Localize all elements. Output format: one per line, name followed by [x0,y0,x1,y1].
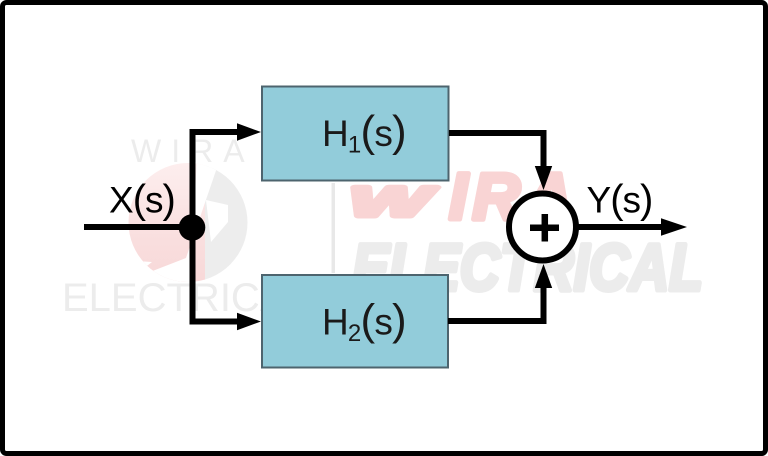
wire: top branch horizontal into H1 [190,129,239,135]
arrowhead into summer top [535,166,552,190]
svg-text:W: W [349,179,437,226]
node: junction dot [179,214,206,241]
svg-text:H2(s): H2(s) [322,296,406,348]
watermark: big ELECTRICAL gray italic [352,230,703,304]
wire: output Y(s) [575,224,662,230]
white lightning bolt [120,156,221,290]
plus sign [530,225,559,232]
wire: H2 output to summing point [448,286,544,321]
arrowhead into H2 [237,313,261,330]
svg-text:Y(s): Y(s) [587,178,653,222]
summing junction circle [509,194,576,261]
wire: vertical branch through node [190,132,196,322]
watermark: thin divider bar [332,183,336,273]
watermark: big WIRA pink italic (wide flat W + taller IRA) [349,179,437,226]
wire: H1 output to summing point [449,133,544,168]
svg-text:H1(s): H1(s) [322,107,406,159]
arrowhead into H1 [237,123,261,140]
svg-text:X(s): X(s) [109,178,175,222]
arrowhead into summer bottom [535,264,552,288]
block H1 [262,87,449,181]
arrowhead output [661,218,687,235]
wire: input horizontal X(s) line [84,224,192,230]
wire: bottom branch horizontal into H2 [190,319,239,325]
block H2 [262,275,448,368]
